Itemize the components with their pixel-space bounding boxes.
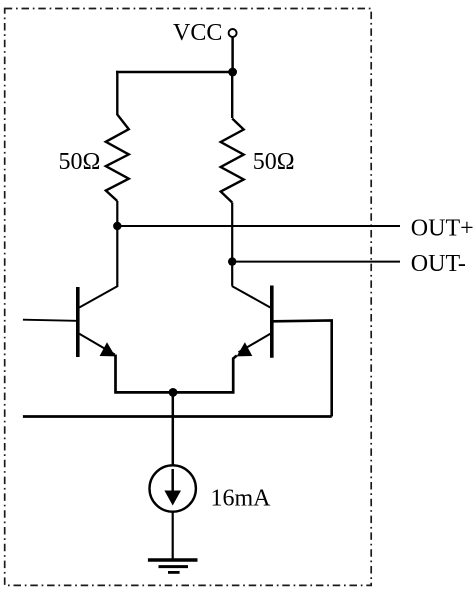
wire left collector vertical — [116, 226, 118, 287]
resistor R-right 50ohm — [221, 119, 244, 203]
wire OUT- — [232, 261, 400, 263]
svg-text:16mA: 16mA — [211, 485, 272, 511]
wire left branch to resistor — [116, 71, 118, 115]
svg-text:OUT-: OUT- — [411, 251, 466, 277]
transistor Q-right: base lead and loop down to bottom wire — [273, 320, 331, 416]
current source I1 circle — [150, 465, 196, 511]
wire resistor-right bottom lead (crosses OUT+ with no dot) — [231, 203, 233, 262]
wire bottom input (crosses tail wire, no dot) — [23, 415, 332, 418]
wire top horizontal — [116, 71, 233, 73]
VCC terminal (open circle) — [229, 29, 237, 37]
transistor Q-left: emitter arrowhead — [100, 342, 116, 356]
svg-text:OUT+: OUT+ — [411, 215, 474, 241]
ground symbol — [148, 558, 198, 561]
wire VCC to top node — [231, 37, 234, 72]
border frame (dash-dot) — [5, 9, 372, 586]
wire OUT+ — [117, 225, 400, 227]
wire tail down to current source — [172, 392, 175, 466]
svg-text:50Ω: 50Ω — [253, 149, 295, 175]
transistor Q-right: emitter arrowhead — [237, 342, 253, 356]
wire right branch to resistor — [231, 71, 233, 118]
wire current source to ground — [172, 511, 174, 560]
wire resistor-left bottom lead — [116, 201, 118, 226]
svg-text:VCC: VCC — [173, 20, 222, 46]
node emitter common junction — [169, 388, 178, 397]
wire right emitter down and left — [173, 356, 237, 393]
current source arrowhead — [164, 491, 181, 506]
resistor R-left 50ohm — [106, 115, 129, 202]
transistor Q-left: base lead — [23, 320, 76, 321]
wire right collector vertical — [231, 262, 233, 286]
transistor Q-left: base bar — [76, 287, 80, 357]
transistor Q-left: emitter diagonal — [79, 334, 115, 355]
node OUT- junction — [228, 257, 236, 265]
node OUT+ junction — [113, 222, 121, 230]
transistor Q-right: collector diagonal — [232, 286, 270, 308]
transistor Q-right: emitter diagonal — [239, 334, 271, 353]
current source arrow shaft — [171, 469, 174, 492]
transistor Q-right: base bar — [270, 286, 274, 358]
svg-text:50Ω: 50Ω — [59, 149, 101, 175]
wire left emitter down and right — [116, 355, 174, 393]
node: top junction — [228, 68, 237, 77]
transistor Q-left: collector diagonal — [79, 286, 118, 308]
